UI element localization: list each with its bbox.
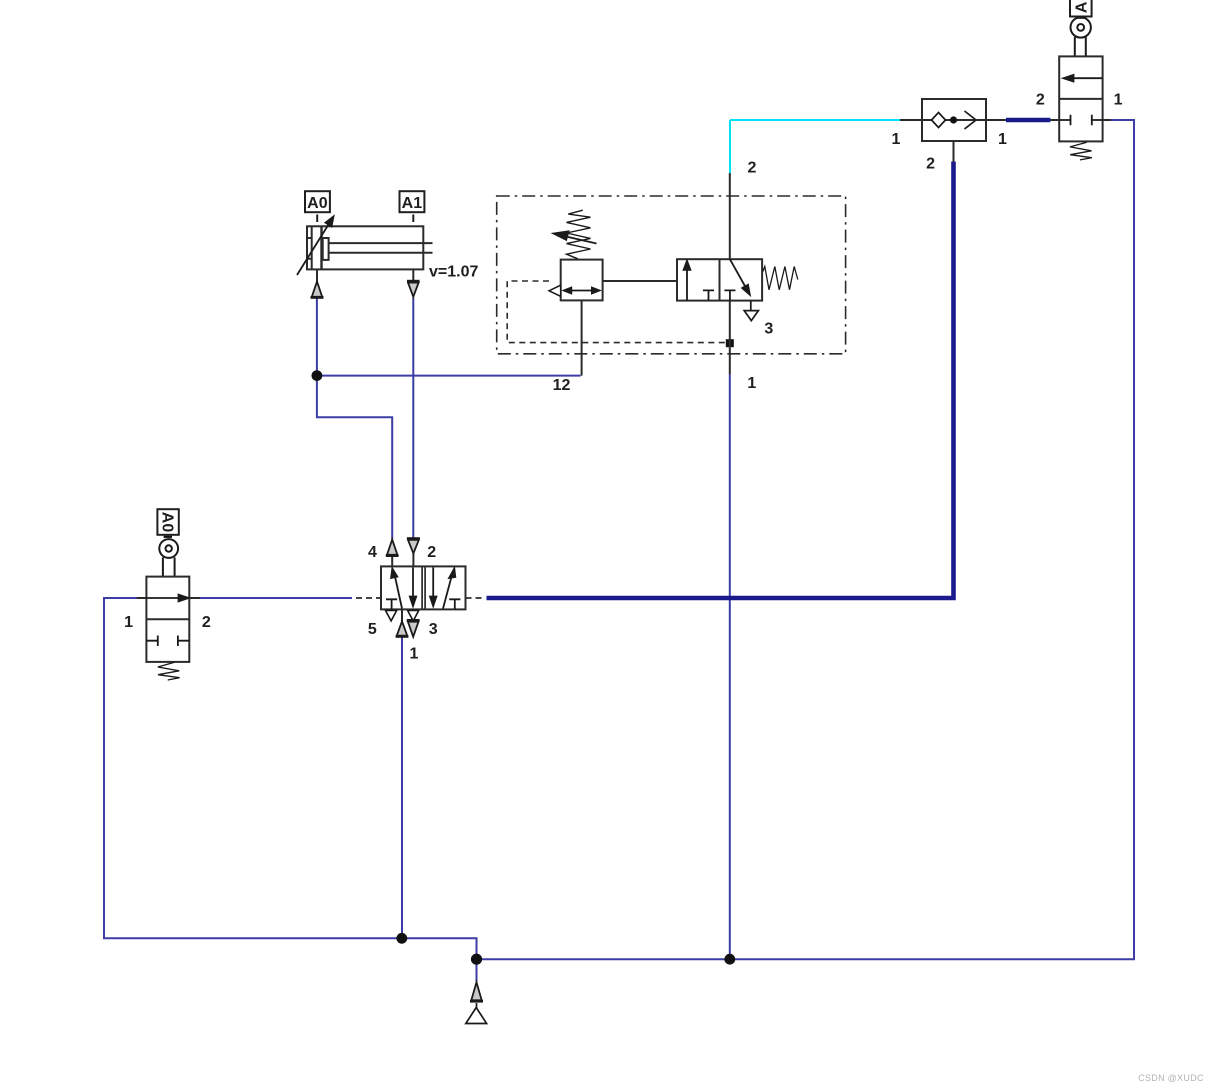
port stub: shuttle bottom xyxy=(953,141,955,162)
svg-text:3: 3 xyxy=(429,621,438,638)
shuttle valve right seat chevron xyxy=(965,111,977,129)
svg-text:1: 1 xyxy=(892,131,901,148)
svg-text:A1: A1 xyxy=(402,195,423,212)
svg-text:5: 5 xyxy=(368,621,377,638)
wire: cylinder left port down to junction xyxy=(316,298,318,376)
wire: junction jog down to 5/2 valve port 4 xyxy=(317,376,392,539)
label box A (rotated) xyxy=(1070,0,1092,18)
port stub: shuttle left xyxy=(900,119,922,121)
3/2 valve left position flow arrow xyxy=(684,261,691,301)
compressed air source symbol xyxy=(466,1003,487,1024)
shuttle valve ball xyxy=(950,116,957,123)
wire: A0 valve port 2 to 5/2 valve left pilot xyxy=(200,597,352,599)
valve A0 body xyxy=(146,577,189,662)
port stub: shuttle right xyxy=(986,119,1006,121)
svg-text:A0: A0 xyxy=(307,195,328,212)
valve A body xyxy=(1059,56,1102,141)
pressure valve pilot seat triangle xyxy=(549,285,561,296)
valve A0 bottom position blocked ports T-T xyxy=(146,636,189,647)
label box A0 (cylinder position marker) xyxy=(305,191,330,222)
svg-text:A0: A0 xyxy=(158,512,175,533)
3/2 valve of sequence assembly xyxy=(677,259,762,300)
5/2 left position arrow 2 to 3 xyxy=(410,568,416,607)
svg-text:1: 1 xyxy=(998,131,1007,148)
wire: valve A port1 down right side to bottom supply line xyxy=(477,120,1135,959)
valve A top position flow arrow (left) xyxy=(1064,75,1103,82)
port stub: valve A0 port 1 xyxy=(137,597,146,599)
wire: sequence valve port 1 down to bottom supply line xyxy=(729,374,731,959)
port stub 5/2 port 2 xyxy=(412,554,414,567)
junction node: supply line / sequence valve port 1 xyxy=(724,954,735,965)
svg-text:2: 2 xyxy=(926,156,935,173)
port stub: valve A0 port 2 xyxy=(189,597,200,599)
port stub: sequence valve port 2 xyxy=(729,173,731,259)
3/2 valve right position diagonal flow arrow xyxy=(730,259,750,295)
valve A bottom position blocked ports T-T xyxy=(1059,115,1102,125)
svg-text:4: 4 xyxy=(368,544,377,561)
svg-text:2: 2 xyxy=(427,544,436,561)
flow arrow 5/2 port 2 (down, gray) xyxy=(407,539,420,554)
5/2 left position arrow 1 to 4 xyxy=(391,569,402,609)
port stub: sequence valve port 12 xyxy=(581,300,583,375)
port stub: valve A port 2 xyxy=(1050,119,1059,121)
wire: 5/2 valve port 1 down to bottom junction xyxy=(401,637,403,938)
5/2 right position down arrow xyxy=(430,568,436,607)
3/2 valve left position blocked port T xyxy=(703,290,714,300)
svg-text:1: 1 xyxy=(747,375,756,392)
junction node: bottom left / 5-2 port 1 xyxy=(396,933,407,944)
svg-text:v=1.07: v=1.07 xyxy=(429,264,478,281)
3/2 valve right position blocked port T xyxy=(724,290,735,300)
svg-text:2: 2 xyxy=(202,614,211,631)
sequence valve assembly enclosure (dash-dot box) xyxy=(497,196,846,354)
flow arrow 5/2 port 3 (down, gray) xyxy=(407,620,420,636)
valve A return spring xyxy=(1070,142,1092,160)
flow arrow 5/2 port 4 (up, gray) xyxy=(386,540,399,556)
shuttle valve left seat diamond xyxy=(932,113,946,128)
wire: air source stub xyxy=(476,959,478,981)
junction square: pilot line to port line xyxy=(726,339,734,347)
exhaust triangle 5/2 port 3 xyxy=(408,610,419,621)
svg-text:1: 1 xyxy=(124,614,133,631)
valve A0 roller xyxy=(159,539,178,577)
wire: cylinder right port down to 5/2 valve port 2 xyxy=(412,298,414,538)
compressed air supply flow arrow (up, gray) xyxy=(470,982,483,1001)
label box A1 (cylinder position marker) xyxy=(400,191,425,222)
port stub: valve A port 1 xyxy=(1103,119,1111,121)
flow arrow 5/2 port 1 (up, gray) xyxy=(396,621,409,636)
svg-text:2: 2 xyxy=(748,160,757,177)
valve A0 return spring xyxy=(158,662,180,680)
port stub 5/2 port 4 xyxy=(391,556,393,567)
5/2 pilot dashed line right xyxy=(466,597,485,599)
valve A0 top position flow arrow (right) xyxy=(146,595,188,602)
pressure valve adjustment arrow xyxy=(554,231,597,243)
exhaust triangle 5/2 port 5 xyxy=(386,610,397,621)
cylinder adjustable-cushion arrow xyxy=(297,217,334,276)
port stub 5/2 port 1 xyxy=(401,609,403,622)
junction node: supply line / air source xyxy=(471,954,482,965)
svg-text:12: 12 xyxy=(553,377,571,394)
pressure valve double arrow xyxy=(564,288,600,294)
wire cyan: shuttle valve input 1 to sequence valve port 2 xyxy=(730,120,900,173)
label box A0 (rotated) xyxy=(157,509,178,537)
flow arrow at cylinder left port (up, gray) xyxy=(311,282,324,298)
wire thick: shuttle valve output 2 to 5/2 valve right pilot xyxy=(487,162,954,599)
shuttle valve (OR) xyxy=(922,99,986,141)
5/2 way pilot valve xyxy=(381,566,466,609)
3/2 valve return spring xyxy=(763,267,798,290)
svg-text:1: 1 xyxy=(410,645,419,662)
pilot-operated pressure valve box xyxy=(561,260,603,301)
5/2 pilot dashed line left xyxy=(356,597,381,599)
cylinder A: double-acting with adjustable end cushioning xyxy=(307,226,433,282)
svg-text:3: 3 xyxy=(764,321,773,338)
wire: junction to sequence valve port 12 xyxy=(317,375,581,377)
wire thick: shuttle valve port 1 to valve A port 2 xyxy=(1006,118,1050,123)
5/2 right position up diagonal arrow xyxy=(443,569,455,609)
wire: A0 valve port 1 to bottom supply line xyxy=(104,598,477,959)
svg-text:CSDN @XUDC: CSDN @XUDC xyxy=(1138,1073,1204,1083)
svg-text:1: 1 xyxy=(1114,92,1123,109)
flow arrow at cylinder right port (down, gray) xyxy=(407,281,420,297)
valve A roller xyxy=(1071,17,1091,56)
5/2 left position blocked port 5 T xyxy=(386,599,397,609)
svg-text:2: 2 xyxy=(1036,92,1045,109)
pressure valve adjustment spring xyxy=(567,210,591,259)
pilot line pressure valve to 3/2 valve xyxy=(603,280,677,282)
5/2 right position blocked port T xyxy=(449,599,460,609)
sequence valve exhaust port 3 xyxy=(744,301,758,321)
svg-text:A: A xyxy=(1073,1,1090,13)
port stub: sequence valve port 1 xyxy=(729,301,731,374)
pilot dashed control line xyxy=(507,281,726,343)
junction node: cylinder A0 line / port 12 / 5-2 port 4 xyxy=(312,370,323,381)
